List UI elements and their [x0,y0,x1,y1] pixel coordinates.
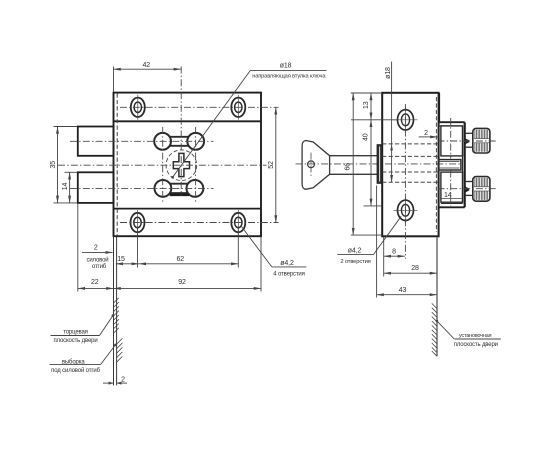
svg-text:28: 28 [411,265,419,272]
svg-text:отгиб: отгиб [92,264,107,270]
faceplate top strip lower edge [114,120,262,122]
svg-text:ø4,2: ø4,2 [348,247,362,254]
svg-text:плоскость двери: плоскость двери [53,338,97,344]
hidden line bushing bottom [382,181,438,183]
label o4,2 two holes [373,216,401,254]
keyhole cross [173,153,189,176]
svg-text:52: 52 [268,161,275,169]
centerline lower bolt [70,187,214,189]
centerline upper bolt [70,140,214,142]
key bow vertical centerline [310,153,312,177]
hidden line of faceplate bend (dashed, inside body) [116,94,118,236]
key tip connector block [439,160,461,170]
lower deadbolt [78,172,114,203]
dimension 22 [78,287,114,289]
centerline bottom strip [120,222,279,224]
svg-text:2: 2 [121,376,125,383]
dimension 15 [116,263,139,265]
svg-text:ø18: ø18 [280,63,292,70]
svg-text:15: 15 [117,256,125,263]
faceplate bottom strip upper edge [114,208,262,210]
svg-text:14: 14 [62,183,69,191]
svg-text:установочная: установочная [459,333,492,339]
extension hole centerline left [351,119,397,121]
centerline upper knob [438,140,498,142]
dimension 2 (case wall) [419,136,432,138]
svg-text:43: 43 [399,287,407,294]
guide bushing section [377,145,382,184]
case right wall (thick) [438,93,440,122]
svg-text:92: 92 [178,279,186,286]
key shank [330,155,378,157]
svg-text:4 отверстия: 4 отверстия [273,271,304,277]
upper dumbbell slot [154,133,204,150]
vertical centerline through keyhole [180,67,182,197]
knob housing step top [439,121,465,123]
extension bottom edge left [351,234,382,236]
guide bushing dashed circle [166,150,197,181]
recess line (2mm offset) [116,236,118,385]
svg-text:35: 35 [50,161,57,169]
mounting screw hole 1 (left view) [131,95,145,120]
vertical centerline left slot circles [162,127,164,204]
label o4,2 four holes [242,227,272,267]
dimension 66 [352,93,354,235]
dimension 35 extension lines [54,126,78,128]
extension bushing face down [376,186,378,298]
dimension 28 [384,272,437,274]
svg-text:ø18: ø18 [385,67,392,79]
svg-text:62: 62 [177,256,185,263]
dimension 35 [57,127,59,203]
key axis centerline [296,163,461,165]
lower dumbbell slot [155,180,204,197]
dimension 40 [370,120,372,206]
label 2 silovoy otgib [82,251,113,253]
svg-text:2 отверстия: 2 отверстия [340,259,370,265]
knob housing bottom [439,206,465,208]
dimension 62 [139,263,238,265]
dimension 42 [114,68,181,70]
svg-text:22: 22 [91,279,99,286]
svg-text:42: 42 [143,62,151,69]
vertical centerline right slot circles [195,127,197,204]
centerline top strip [120,106,279,108]
centerline key axis (left view) [58,164,267,166]
extension lines for 22/92 [77,204,79,292]
lower thumbturn cylinder [441,172,463,202]
key bow hole [308,161,315,168]
label tortsevaya ploskost dveri [100,316,113,336]
door end plane line [113,236,115,385]
svg-text:направляющая втулка ключа: направляющая втулка ключа [252,73,326,79]
mounting screw hole 4 (left view) [231,210,245,235]
lock case body outline (front view) [114,93,262,237]
hatching door end plane [114,298,119,333]
dimension 13 [370,93,372,120]
label vyborka pod silovoy otgib [101,345,116,365]
dimension 14 (bolt) [69,172,71,203]
dimension 2 (recess width) [103,382,114,384]
hidden line keyway top [382,155,438,157]
vertical centerline upper cylinder [450,118,452,159]
extension lines for 15/62 [137,228,139,268]
lock case side view plate [382,93,438,237]
dimension 92 [114,287,262,289]
dimension 52 [275,107,277,222]
extension top edge left [351,92,382,94]
mounting screw hole 3 (left view) [131,210,145,235]
mounting screw hole 1 (side view) [394,107,418,133]
svg-text:под силовой отгиб: под силовой отгиб [51,367,100,374]
key bow [302,141,330,190]
svg-text:13: 13 [363,101,370,109]
svg-text:66: 66 [345,163,352,171]
mounting screw hole 2 (side view) [394,197,418,223]
extension housing bottom left [364,205,383,207]
upper deadbolt [78,127,114,156]
centerline lower knob [438,188,498,190]
dimension 8 [384,255,405,257]
dimension 42 extension line [113,67,115,92]
hidden line keyway bottom [382,171,438,173]
hatching recess [117,338,123,362]
svg-text:плоскость двери: плоскость двери [454,342,498,348]
thick bar below lower slot [170,194,190,197]
label o18 guide bushing [173,70,251,177]
svg-text:выборка: выборка [62,359,85,365]
svg-text:ø4,2: ø4,2 [280,260,294,267]
svg-text:2: 2 [424,130,428,137]
door mounting plane line [436,237,438,356]
svg-text:8: 8 [392,249,396,256]
svg-text:силовой: силовой [86,257,108,264]
dimension o18 (bushing) [391,62,393,183]
dimension 14 extension line [65,171,78,173]
hidden line bushing top [382,143,438,145]
hidden line inner wall [435,97,437,232]
dimension 43 [377,294,437,296]
mounting screw hole 2 (left view) [231,95,245,120]
upper thumbturn cylinder [441,126,463,156]
vertical centerline screw holes (side view) [404,104,406,259]
hatching door mounting plane [432,303,437,356]
upper thumbturn knurled knob [465,128,490,153]
svg-text:14: 14 [444,192,452,199]
svg-text:2: 2 [94,245,98,252]
svg-text:40: 40 [362,133,369,141]
label ustanovochnaya ploskost dveri [437,321,454,339]
lower thumbturn knurled knob [465,177,490,202]
svg-text:торцевая: торцевая [63,329,88,335]
extension plate left edge down [383,237,385,277]
vertical centerline lower cylinder [450,171,452,206]
knob housing outer wall [464,122,466,207]
